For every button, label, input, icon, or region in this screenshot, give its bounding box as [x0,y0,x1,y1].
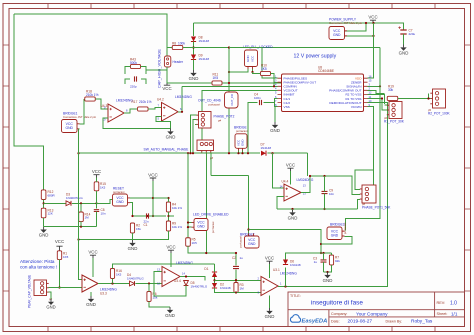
wire header to lower rail [166,67,168,83]
op-amp U3.3 [82,275,98,292]
ground U4.4 [292,210,294,213]
svg-text:1K5: 1K5 [192,241,198,245]
wire bridge pin2 down long [79,128,80,130]
LED_PLL connector [245,50,258,67]
wire R8 row [167,47,172,49]
svg-text:GND: GND [241,140,245,146]
svg-text:Drawn By:: Drawn By: [386,319,403,323]
wire peak pin3 gnd [49,292,51,299]
svg-text:1/1: 1/1 [451,311,458,316]
svg-text:1K5: 1K5 [213,76,219,80]
wire R15 leads [96,178,98,182]
wire top second rail [194,22,381,24]
svg-text:con alta tensione !: con alta tensione ! [20,265,57,270]
VCC above U3.3 [90,255,96,258]
svg-text:REV:: REV: [437,301,446,305]
wire R3 bottom [235,291,237,294]
wire U4.2 output [178,111,182,113]
svg-text:VCO/IN: VCO/IN [351,105,362,109]
svg-text:GND: GND [189,76,199,81]
svg-text:15k: 15k [136,227,141,231]
capacitor C9 [322,191,328,193]
wire R9 bottom [79,231,169,240]
connector BRIDGE2 [245,236,260,248]
wire rail y175.3 [211,174,249,176]
svg-text:LM324DNG: LM324DNG [175,95,192,99]
wire bridge col to U3.3 minus [79,129,83,280]
svg-text:GND: GND [86,302,96,307]
svg-text:1N4007RLG: 1N4007RLG [66,196,83,200]
frame row ticks right [465,45,471,291]
wire R2 to VSS [368,94,385,104]
svg-text:VCC: VCC [251,55,255,62]
resistor R15 [94,182,99,191]
diode D2 top wire [214,277,216,283]
wire D7 junction down to U4.4 minus [273,153,285,188]
svg-text:LED_DRIVE_ENABLED: LED_DRIVE_ENABLED [193,213,229,217]
svg-text:GND: GND [333,33,341,37]
wire x188 column [187,153,189,238]
svg-text:PEAK_CAP_VOLTAGE: PEAK_CAP_VOLTAGE [28,275,32,308]
VCC above U4.4 [287,168,293,171]
wire C4 right to pins [264,98,278,102]
wire VCO/IN to pot top pin [355,170,374,190]
wire D4 to U3.4 [136,282,163,284]
svg-text:GND: GND [246,55,250,63]
svg-text:1M: 1M [240,286,245,290]
wire R19 to R2 pot [398,94,429,99]
wire U4.4 plus input [277,197,284,210]
op-amp U3.4 [162,267,180,287]
svg-text:Header: Header [173,60,184,64]
capacitor C7 polarized [400,30,406,34]
svg-text:VCC: VCC [148,172,158,177]
svg-text:portacavi: portacavi [239,236,243,248]
connector PHASE_POT1_50K [362,185,376,203]
wire C2 bottom [235,270,237,283]
diode D3 [66,201,71,206]
wire bottom common [215,288,262,293]
ground under D9 [193,60,195,71]
svg-text:R17: R17 [132,100,138,104]
resistor R1 [57,251,61,260]
wire signal-in right [368,85,381,87]
diode D8 [193,23,195,36]
svg-text:Date:: Date: [331,319,340,323]
svg-text:VCC: VCC [166,245,175,250]
wire R9 node right [169,215,175,217]
wire C9 leads [324,176,326,191]
wire output up to D6 [285,268,287,287]
resistor R17 [138,107,149,111]
svg-text:PHASE_POT1_50K: PHASE_POT1_50K [362,206,391,210]
svg-text:500k: 500k [130,61,137,65]
svg-text:220p: 220p [130,85,137,89]
svg-text:portacavi: portacavi [209,102,221,106]
svg-text:GND: GND [116,200,124,204]
wire connector pin2 to VDD column [345,35,374,37]
wire BRIDGE mid pins [238,151,240,154]
svg-text:Attenzione: Pista: Attenzione: Pista [20,259,55,264]
svg-text:210k 1%: 210k 1% [86,93,99,97]
resistor R8 [172,45,183,49]
svg-text:1.0: 1.0 [450,300,457,306]
svg-text:12 V power supply: 12 V power supply [294,54,337,60]
wire U4.2 plus from ground rail [156,117,171,129]
wire comp-in rail [182,85,278,87]
frame column ticks bottom [48,327,435,332]
svg-text:Roby_Tas: Roby_Tas [411,319,433,325]
wire R10 leads [253,72,261,74]
ground under PEAK [50,299,52,302]
svg-text:1N4148: 1N4148 [199,39,210,43]
header J1 CAP_HIGH_VOLTAGE [164,56,170,67]
connector PHASE_POT2 [199,112,212,129]
wire VCC stub U3.4 [170,253,172,267]
svg-text:Company:: Company: [331,312,347,316]
ground under C7 [403,34,405,45]
resistor R43 [131,64,141,68]
svg-text:VCC: VCC [286,163,295,168]
diode D2 [212,283,217,288]
svg-text:portacavi: portacavi [113,190,125,194]
capacitor C10 [135,76,137,81]
svg-text:p#: p# [218,118,222,122]
svg-text:680R: 680R [48,193,56,197]
wire R5 bottom to C2 rail [188,246,236,253]
wire R1 bottom lead [59,260,61,288]
svg-text:1M: 1M [85,216,90,220]
svg-text:GND: GND [270,128,280,133]
wire R14 bottom [80,222,82,227]
wire top rail from corner [14,14,167,56]
wire long rail y153.2 [79,152,308,154]
svg-text:U3.3: U3.3 [100,291,107,295]
junction D8 bottom [193,42,195,55]
svg-text:GND: GND [65,126,73,130]
svg-text:10n: 10n [101,211,106,215]
wire SW pin3 column [210,153,212,175]
wire vco-out left [202,90,278,140]
wire pin1 left [229,48,278,79]
wire VCC stub U3.1 [269,264,271,278]
diode D9 [191,55,196,60]
svg-text:U3.1: U3.1 [273,268,280,272]
svg-text:GND: GND [165,313,175,318]
connector PEAK_CAP [34,280,47,296]
svg-text:TITLE:: TITLE: [290,294,301,298]
wire U4.4 gnd stub [292,209,294,211]
wire bridge pin1 up to R18 [80,99,85,124]
diode D5 [184,281,189,286]
wire phasecomp out right [368,90,385,93]
svg-text:1N4148: 1N4148 [261,146,272,150]
resistor R4 [166,202,170,212]
svg-text:1N4007RLG: 1N4007RLG [191,284,208,288]
wire R11 row [167,82,212,84]
wire U3.1 output [278,286,286,288]
svg-text:Connettore JST Male 2 pin: Connettore JST Male 2 pin [63,115,97,119]
capacitor C4 [260,100,262,105]
svg-text:1K5: 1K5 [63,255,69,259]
svg-text:U4.4: U4.4 [282,180,289,184]
svg-text:100k: 100k [178,42,185,46]
capacitor C8 [94,210,99,212]
svg-text:p6: p6 [384,116,388,120]
op-amp U4.3 [108,104,124,122]
wire pot2 pins left [191,115,197,153]
wire R4 top rail [153,197,169,199]
wire VDD to VCC rail [368,23,374,78]
svg-text:VSS: VSS [284,105,290,109]
wire peak pin2 to U3.3 [49,287,82,289]
title block outline [288,292,465,327]
wire VCC stub U3.3 [92,258,94,277]
svg-text:portacavi: portacavi [211,221,215,233]
BRIDGE2 top pins [249,234,254,237]
svg-text:Your Company: Your Company [356,311,388,317]
frame column ticks top [48,4,435,9]
svg-text:GND: GND [248,242,256,246]
svg-text:VCC: VCC [265,256,274,261]
wire R6 leads [148,284,150,292]
svg-text:inseguitore di fase: inseguitore di fase [311,300,363,307]
VCC flag top right [370,20,376,23]
op IC U8 body [282,74,364,112]
wire long rail y47.5 [183,47,380,49]
net port OUT_CD_4046 body [225,92,239,108]
VCC above R15 [93,175,99,178]
wire U3.3 output [98,283,129,285]
wire D7 right junction [271,152,273,154]
ground under U3.3 [90,292,92,296]
wire C4 left down to D7 [248,103,258,145]
svg-text:GND: GND [39,233,49,238]
svg-text:EasyEDA: EasyEDA [302,319,328,325]
svg-text:1N4007RLG: 1N4007RLG [127,276,144,280]
svg-text:1K5: 1K5 [116,272,122,276]
svg-text:GND: GND [399,51,409,56]
wire R16 leads [112,279,114,284]
resistor R14 [79,212,84,222]
svg-text:D1: D1 [204,267,208,271]
connector BRIDGE3 [327,227,342,240]
svg-text:2019-08-27: 2019-08-27 [348,319,373,325]
svg-text:GND: GND [323,278,333,283]
diode D4 [130,281,135,286]
wire R43 to header col [146,69,167,71]
wire connector pin1 to rail [345,23,367,31]
wire C3 leads [323,253,325,260]
diode D1 [212,272,217,277]
resistor R5 [186,238,191,247]
svg-text:1N4148: 1N4148 [290,263,301,267]
ground under C3 [327,272,329,275]
svg-text:Connettore JST Male 2 pin: Connettore JST Male 2 pin [329,21,363,25]
svg-text:VCC: VCC [55,239,64,244]
wire D5 bottom [185,286,187,292]
VCC flag below rail [164,83,170,85]
connector LED_DRIVE [194,219,208,231]
wire rail y229.5 [249,230,322,254]
wire R4 leads [168,198,170,202]
connector BRIDGE1 [62,120,78,133]
svg-text:C1: C1 [144,223,148,227]
wire C1 row [133,215,167,217]
wire VCC stub U4.4 [290,171,292,185]
wire ground rail R13 to C8 [44,226,97,228]
svg-text:220u: 220u [409,32,416,36]
resistor R9 [166,221,170,231]
connector R2_POT_100K [433,89,446,108]
wire D3 row [44,202,66,204]
VCC above U3.4 [168,250,174,253]
wire demodulation out long [286,103,388,287]
wire R7 leads [331,253,333,255]
wire rail extension to C7 [380,23,404,30]
svg-text:p#: p# [362,202,366,206]
resistor R18 [85,97,96,101]
wire VSS to ground [275,107,278,122]
wire R18 to U4.3 [95,99,108,109]
capacitor C2 [233,266,239,268]
svg-text:SW_AUTO_MANUAL_PHASE: SW_AUTO_MANUAL_PHASE [144,147,190,151]
svg-text:1N4148: 1N4148 [220,286,231,290]
wire rail to pot bottom pin [358,200,361,210]
wire rail to C2 col [235,253,237,265]
wire pin2 left rail [274,81,278,84]
svg-text:GND: GND [265,314,275,319]
svg-text:CAP_HIGH_VOLTAGE: CAP_HIGH_VOLTAGE [158,49,162,88]
wire long vertical x229 [228,48,230,93]
wire long vertical x380 [345,48,380,231]
svg-text:portacavi: portacavi [236,129,248,133]
wire node to reset [97,200,113,204]
wire U4.3 out to R17 [124,109,137,113]
wire U3.4 output [180,277,205,281]
connector BRIDGE mid [235,134,247,149]
wire R16 top rail to D1 [190,263,215,265]
svg-text:30k: 30k [388,88,394,92]
ground under R6 [169,307,171,310]
wire BRIDGE3 pins [321,237,352,245]
svg-text:LM324DNG: LM324DNG [280,272,297,276]
resistor R2 [130,223,134,233]
svg-text:OUT_CD: OUT_CD [230,94,234,106]
wire VCC col down [152,181,154,216]
svg-text:C2: C2 [232,256,236,260]
resistor R16 [110,269,114,279]
svg-text:GND: GND [128,246,138,251]
ground under U8 [274,122,276,125]
resistor R11 [212,81,222,85]
wire U4.3 plus loop [103,118,171,129]
wire U4.4 output loop [301,176,360,194]
svg-text:PHASE_POT2: PHASE_POT2 [214,115,235,119]
svg-text:LM324DNG: LM324DNG [297,178,314,182]
svg-text:1u: 1u [314,260,318,264]
wire VCO/IN down to pot [362,107,374,190]
svg-text:100n: 100n [254,96,261,100]
wire D1 top [214,264,216,272]
wire left vertical rail [14,14,44,190]
svg-text:R2_POT_100K: R2_POT_100K [428,112,450,116]
VCC mid [150,178,156,181]
svg-text:1u: 1u [240,256,244,260]
ground under U4.2 [170,129,172,132]
resistor R6 [147,292,151,302]
U8 left pin stubs [278,78,282,106]
wire R1 pot pins [385,104,387,106]
wire U4.2 out riser [181,86,183,112]
ground under R2 [132,233,134,240]
connector POWER_SUPPLY [329,27,345,40]
wire R14 top lead [80,203,82,212]
svg-text:GND: GND [288,216,298,221]
svg-text:U3.4: U3.4 [174,279,181,283]
wire C8 bottom [96,212,98,227]
svg-text:VCC: VCC [162,86,171,91]
wire input rail to U3.1 [215,279,262,281]
svg-text:GND: GND [197,225,205,229]
VCC above R1 [56,246,62,251]
diode D7 [260,150,267,156]
svg-text:12K: 12K [48,212,53,216]
svg-text:CD4046BE: CD4046BE [318,69,334,73]
wire x248.5 down to BRIDGE2 [248,175,250,236]
resistor R7 [329,255,333,265]
wire D3 right [72,202,97,204]
wire reset pin2 [130,203,133,216]
wire LED pins down-left [229,69,248,72]
op-amp U4.2 [162,103,179,122]
resistor R12 [41,190,46,200]
capacitor C1 [147,213,149,218]
wire R1 to VSS to R19 [368,97,382,99]
svg-text:GND: GND [166,135,176,140]
svg-text:VCC: VCC [88,250,97,255]
wire R17 to U4.2 [148,108,161,110]
svg-text:1N4148: 1N4148 [199,57,210,61]
svg-text:GND: GND [331,233,339,237]
svg-text:VCC: VCC [92,169,101,174]
op-amp U4.4 [284,184,301,201]
svg-text:210k 1%: 210k 1% [139,100,152,104]
resistor R19 [387,96,398,100]
svg-text:10k 1%: 10k 1% [172,206,182,210]
VCC above U3.1 [266,261,272,264]
wire R43 loop [125,67,131,75]
diode D6 [283,260,288,265]
svg-text:1K5: 1K5 [100,185,106,189]
EasyEDA logo [290,315,300,323]
ground rail under U4.4 [277,208,358,210]
ground under R13 [43,218,45,227]
wire reset pin1 to VCC col [130,197,153,199]
svg-text:1K5: 1K5 [261,67,267,71]
connector RESET [113,194,128,206]
capacitor C3 [321,260,327,262]
svg-text:portacavi: portacavi [343,222,347,234]
wire SW pin2 column to C2 rail [205,153,207,253]
wire LED pin stubs to column [188,222,192,224]
connector R1_POT_30K [389,102,402,119]
resistor R13 [41,208,46,218]
wire R2 pot mid pin [429,98,431,100]
resistor R3 [234,283,238,293]
svg-text:92k: 92k [335,259,340,263]
wire D6 top rail [286,253,332,260]
